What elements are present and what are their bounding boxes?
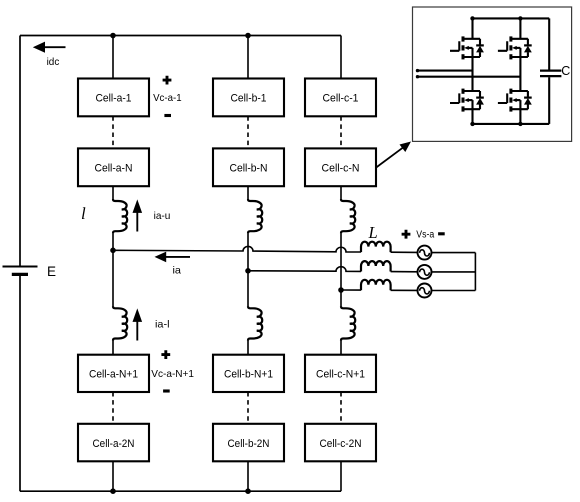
wire: phase-b upper arm lead [247,186,249,199]
cell Cell-b-2N [213,424,284,462]
wire: phase-c to mid junction [340,233,342,306]
wire: phase-a bottom lead [112,461,114,491]
svg-text:Cell-a-N: Cell-a-N [95,162,133,174]
svg-text:L: L [368,223,378,242]
cell Cell-b-N [213,148,284,186]
node: phase-b mid junction [245,268,251,274]
node: inset top-left junction [470,16,474,20]
wire: phase-a dashed link lower [112,392,114,424]
wire: phase-b top lead [247,36,249,79]
inductor L phase-b [361,261,391,271]
label minus (Vc-a-1 polarity) [164,114,171,117]
cell Cell-b-1 [213,79,284,117]
wire: phase-b bottom lead [247,461,249,491]
inductor phase-c lower [341,306,355,340]
arrow idc [33,42,66,53]
svg-text:Cell-a-2N: Cell-a-2N [93,438,135,450]
node: phase-a top junction [110,33,116,39]
svg-text:E: E [47,264,56,279]
cell Cell-a-1 [78,79,149,117]
svg-text:Cell-c-N: Cell-c-N [322,162,360,174]
wire: phase-c lower arm lead [340,340,342,354]
wire: phase-c dashed link lower [340,392,342,424]
wire: phase-c bottom lead [340,461,342,491]
inset frame [413,7,572,141]
svg-text:Cell-b-N+1: Cell-b-N+1 [224,368,273,380]
transistor lower-right [498,89,532,112]
svg-text:Cell-a-N+1: Cell-a-N+1 [89,368,138,380]
svg-text:Cell-c-2N: Cell-c-2N [320,438,362,450]
inductor phase-a lower [113,306,127,340]
wire: phase-b dashed link lower [247,392,249,424]
label plus (Vc-a-1 polarity) [163,76,172,85]
cell Cell-a-N+1 [78,355,149,392]
wire: bottom DC rail [20,490,341,492]
wire: inset bottom rail [473,123,550,125]
label plus (Vc-a-N+1 polarity) [161,350,170,359]
cell Cell-c-1 [305,79,376,117]
wire: phase-c dashed link upper [340,116,342,148]
node: phase-b top junction [245,33,251,39]
svg-text:Cell-b-1: Cell-b-1 [231,92,267,104]
node: inset bottom-left junction [470,122,474,126]
node: terminal dot lower [416,75,419,78]
wire: phase-a output line with hops [113,246,418,252]
inductor phase-b upper [248,199,262,233]
wire: left DC link lower [19,276,21,491]
wire: neutral bus [474,253,476,291]
wire: inset output terminal upper [418,70,473,72]
wire: inset right leg segments [519,18,521,124]
svg-text:ia-l: ia-l [155,319,170,331]
wire: phase-a to mid junction [112,233,114,306]
inductor l phase-a upper [113,199,127,233]
AC source Vs-a [418,246,432,260]
svg-text:ia-u: ia-u [154,210,171,222]
battery E [3,267,38,275]
wire: phase-a dashed link upper [112,116,114,148]
inductor L phase-c [361,280,391,290]
wire: phase-b dashed link upper [247,116,249,148]
wire: phase-b to mid junction [247,233,249,306]
label minus (Vc-a-N+1 polarity) [163,389,170,392]
arrow callout Cell-c-N to inset [376,142,412,169]
transistor upper-left [450,36,484,59]
transistor lower-left [450,89,484,112]
svg-text:l: l [81,204,86,223]
wire: top DC rail [20,35,341,37]
cell Cell-b-N+1 [213,355,284,392]
wire: phase-c source to bus [432,290,476,292]
capacitor C [540,18,561,124]
cell Cell-c-2N [305,424,376,462]
svg-text:Cell-c-N+1: Cell-c-N+1 [316,368,365,380]
node: phase-b bottom junction [245,488,251,494]
svg-text:C: C [561,64,570,78]
wire: inset left leg segments [471,18,473,124]
wire: inset output terminal lower [418,76,521,78]
wire: phase-b output line with hop [248,267,418,272]
svg-text:Cell-b-N: Cell-b-N [230,162,268,174]
wire: phase-b lower arm lead [247,340,249,354]
inductor phase-b lower [248,306,262,340]
AC source phase-b [418,265,432,279]
wire: phase-a upper arm lead [112,186,114,199]
wire: phase-a source to bus [432,252,476,254]
arrow ia [155,252,191,263]
AC source phase-c [418,284,432,298]
transistor upper-right [498,36,532,59]
inductor phase-c upper [341,199,355,233]
svg-text:idc: idc [47,56,60,68]
wire: inset top rail [473,17,550,19]
label plus (Vs-a polarity) [402,230,411,239]
svg-text:Vs-a: Vs-a [416,230,434,241]
cell Cell-c-N [305,148,376,186]
wire: phase-a lower arm lead [112,340,114,354]
node: phase-c mid junction [338,287,344,293]
wire: phase-c output line [341,289,418,291]
svg-text:ia: ia [173,265,182,277]
svg-text:Cell-c-1: Cell-c-1 [323,92,359,104]
node: inset top-right junction [518,16,522,20]
node: phase-a mid junction [110,248,116,254]
wire: left DC link upper [19,36,21,266]
wire: phase-c top lead [340,36,342,79]
wire: phase-b source to bus [432,271,476,273]
inductor L phase-a [361,242,391,252]
arrow ia-u [133,199,143,231]
svg-text:Cell-b-2N: Cell-b-2N [228,438,270,450]
wire: phase-c upper arm lead [340,186,342,199]
cell Cell-c-N+1 [305,355,376,392]
svg-text:Vc-a-1: Vc-a-1 [153,92,182,104]
label minus (Vs-a polarity) [438,232,445,235]
cell Cell-a-N [78,148,149,186]
svg-text:Cell-a-1: Cell-a-1 [96,92,132,104]
wire: phase-a top lead [112,36,114,79]
node: inset bottom-right junction [518,122,522,126]
node: phase-a bottom junction [110,488,116,494]
cell Cell-a-2N [78,424,149,462]
node: terminal dot upper [416,69,419,72]
svg-text:Vc-a-N+1: Vc-a-N+1 [151,368,194,380]
arrow ia-l [133,308,143,340]
